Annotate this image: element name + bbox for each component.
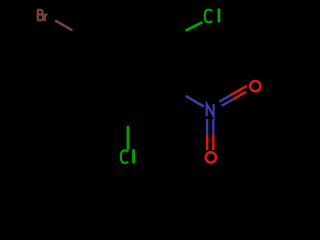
glyph l: [217, 9, 220, 23]
atom Cl bottom label: [121, 149, 134, 163]
atom N label: [207, 104, 214, 116]
atom O (bottom): [206, 152, 216, 162]
bond C3-Cl (bottom, green half): [127, 126, 130, 150]
glyph N: [207, 104, 214, 116]
glyph B bowls: [38, 10, 43, 20]
bond C1-Cl (top, green half): [186, 22, 203, 30]
benzene ring C1-C6 (carbon bonds, black on black: invisible): [87, 15, 169, 110]
atom Br label: [38, 9, 48, 21]
glyph B stem: [37, 9, 40, 21]
bond C5-Br (Br-colored half): [55, 20, 72, 30]
atom O (upper right): [250, 81, 260, 91]
double bond N=O (below): blue halves: [206, 119, 208, 135]
glyph C: [205, 10, 213, 23]
double bond N=O (upper right): blue halves: [219, 95, 230, 102]
double bond N=O (below): red halves: [206, 135, 208, 151]
atom Cl top label: [205, 9, 219, 23]
glyph r: [45, 14, 48, 21]
double bond N=O (upper right): red halves: [231, 86, 247, 95]
bond C2-N (blue half): [186, 96, 204, 106]
glyph C: [121, 150, 129, 163]
glyph l: [132, 149, 135, 163]
